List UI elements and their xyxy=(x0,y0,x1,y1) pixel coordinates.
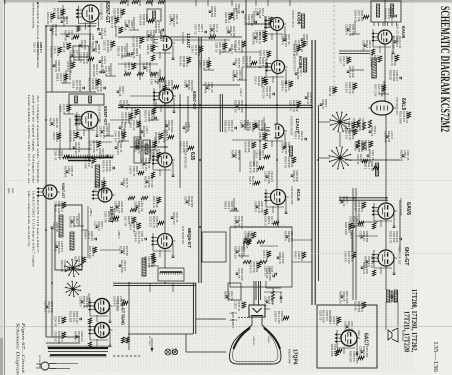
wire column x165 segments xyxy=(164,50,166,89)
wire 12AU7 to 6SN7 xyxy=(164,0,166,36)
tuner switch wafer 2 xyxy=(340,158,351,160)
svg-text:C118 .05: C118 .05 xyxy=(117,46,121,57)
CRT bell outline xyxy=(230,325,282,364)
svg-text:R132 1: R132 1 xyxy=(294,131,298,140)
svg-text:6CL6: 6CL6 xyxy=(295,189,301,201)
dial lamps xyxy=(165,349,171,355)
svg-text:R181 56K: R181 56K xyxy=(224,12,228,24)
svg-text:C185 .02: C185 .02 xyxy=(62,16,66,27)
CRT ion trap dashes xyxy=(238,317,249,319)
svg-text:clockwise rotation.: clockwise rotation. xyxy=(32,2,36,29)
svg-text:C114 6: C114 6 xyxy=(226,26,230,35)
svg-text:R136 50K: R136 50K xyxy=(100,56,104,68)
hookup wires near tube at 90.5,13.5 xyxy=(78,6,80,24)
wire left trunk x52 lower xyxy=(51,228,53,337)
tuner spider wire links xyxy=(339,132,341,147)
extra short wires wave xyxy=(60,33,92,35)
hookup wires near tube at 278,67 xyxy=(265,59,267,77)
svg-text:+285 V: +285 V xyxy=(117,230,121,239)
svg-text:6AC7: 6AC7 xyxy=(363,333,369,346)
svg-text:COAT-ING: COAT-ING xyxy=(252,336,255,346)
wire vertical x186 lower xyxy=(185,334,187,352)
svg-text:L163 6: L163 6 xyxy=(234,301,238,309)
fold crease light horizontal 2 xyxy=(0,180,452,182)
wire horizontal y337 left xyxy=(46,336,80,338)
svg-text:pply.: pply. xyxy=(7,188,11,194)
wire horizontal y343 left xyxy=(46,342,80,344)
svg-text:C160 470: C160 470 xyxy=(344,251,348,263)
svg-text:C141 470: C141 470 xyxy=(113,296,117,308)
svg-text:R138 2: R138 2 xyxy=(119,100,123,109)
bus vertical double x221 upper xyxy=(219,94,221,132)
tube V3 6CB6 1st pix IF xyxy=(271,18,284,31)
svg-text:C181 9MF: C181 9MF xyxy=(139,14,143,26)
IF coil right of 6CB6 no1 xyxy=(301,14,304,28)
svg-text:6SN7-GT: 6SN7-GT xyxy=(104,2,110,23)
svg-text:C132 470: C132 470 xyxy=(134,141,138,153)
svg-text:R104 2.2M: R104 2.2M xyxy=(262,86,266,98)
svg-text:R156 4.7K: R156 4.7K xyxy=(390,54,394,66)
svg-text:R157 3: R157 3 xyxy=(119,246,123,255)
hookup wires near tube at 166,96 xyxy=(153,88,155,106)
svg-text:+385 V: +385 V xyxy=(231,320,235,329)
wire vertical x385 top xyxy=(384,0,386,26)
svg-text:R148 2: R148 2 xyxy=(56,73,60,82)
vert section wires xyxy=(59,105,61,160)
svg-text:+255 V: +255 V xyxy=(154,100,158,109)
page top edge shadow xyxy=(0,0,452,3)
CRT 17QP4 kinescope base box xyxy=(249,305,265,317)
svg-text:C168 .05: C168 .05 xyxy=(124,62,128,73)
tube V12 1B3-GT hv rect xyxy=(98,188,112,202)
hookup wires near tube at 89,120 xyxy=(76,112,78,130)
svg-text:R196 2.2M: R196 2.2M xyxy=(150,72,154,84)
hookup wires near tube at 278,197 xyxy=(265,189,267,207)
tube V1 6SN7-GT vert osc xyxy=(82,5,99,22)
bus vertical x315 xyxy=(314,40,316,305)
svg-text:R135 56K: R135 56K xyxy=(210,6,214,18)
svg-text:R149 30K: R149 30K xyxy=(296,68,300,80)
svg-text:C108 .05: C108 .05 xyxy=(62,42,66,53)
wire column x90 segments xyxy=(89,22,91,92)
bus vertical double x200 xyxy=(198,37,200,283)
wire horizontal y334 xyxy=(128,333,193,335)
svg-text:R196 8: R196 8 xyxy=(224,291,228,300)
wire horizontal y319 xyxy=(196,318,226,320)
svg-text:C131 4: C131 4 xyxy=(359,231,363,240)
top cut component stubs xyxy=(127,0,129,6)
svg-text:R152 2.2M: R152 2.2M xyxy=(46,12,50,24)
svg-text:C147 270: C147 270 xyxy=(114,131,118,143)
svg-text:C181 .05: C181 .05 xyxy=(103,40,107,51)
svg-text:C169 .05: C169 .05 xyxy=(215,42,219,53)
svg-text:R101 80K: R101 80K xyxy=(64,166,68,178)
bottom left page edge dark strip xyxy=(0,338,3,375)
sound det coil xyxy=(372,58,377,78)
svg-text:R190 2.2M: R190 2.2M xyxy=(94,180,98,192)
tube V2 12AU7 half xyxy=(163,36,172,50)
hookup wires near tube at 165,241 xyxy=(152,233,154,251)
width coil dark bar xyxy=(142,258,146,276)
tube V6 6SN7-GT vert out xyxy=(81,112,98,129)
svg-text:R122 4.7K: R122 4.7K xyxy=(96,80,100,92)
svg-text:R155 60K: R155 60K xyxy=(400,150,404,162)
hookup wires near tube at 386,258 xyxy=(373,250,375,268)
svg-text:V111 VERT OSC: V111 VERT OSC xyxy=(100,3,102,21)
terminal comb strip xyxy=(67,157,113,159)
svg-text:C187 270: C187 270 xyxy=(44,301,48,313)
svg-text:R110 4.7K: R110 4.7K xyxy=(152,196,156,208)
svg-text:6SN7-GT: 6SN7-GT xyxy=(61,183,65,199)
svg-text:C159 4MF: C159 4MF xyxy=(370,55,374,67)
svg-text:SPEAKER: SPEAKER xyxy=(401,330,404,342)
svg-text:R179 2.2M: R179 2.2M xyxy=(130,108,134,120)
svg-text:C181 270: C181 270 xyxy=(79,296,83,308)
svg-text:17QP4: 17QP4 xyxy=(292,349,298,365)
wires 6CB6 to trunk xyxy=(246,23,270,25)
svg-text:C129 .07: C129 .07 xyxy=(230,44,234,55)
svg-text:R111 2.2M: R111 2.2M xyxy=(158,84,162,96)
interlock power plug xyxy=(41,362,49,370)
sync wires xyxy=(130,95,158,97)
wire horizontal y52 sound double xyxy=(339,50,370,52)
svg-text:C100 2: C100 2 xyxy=(254,76,258,85)
svg-text:C117 .08: C117 .08 xyxy=(124,216,128,227)
svg-text:R180 4.7K: R180 4.7K xyxy=(74,256,78,268)
B+ bus double horizontal y105 xyxy=(118,104,312,106)
svg-text:R159 100K: R159 100K xyxy=(330,344,334,357)
video box rect xyxy=(230,227,292,287)
svg-text:C168 .04: C168 .04 xyxy=(124,20,128,31)
wire horizontal y2 top cut xyxy=(58,1,110,3)
video box interior resistors xyxy=(243,240,251,243)
svg-text:and with no signal input. Volt: and with no signal input. Voltages sho xyxy=(32,95,36,184)
resistor ladder right of tuner xyxy=(356,120,359,128)
svg-text:+385 V: +385 V xyxy=(89,208,93,217)
wire speaker down xyxy=(385,302,387,330)
fold crease light horizontal xyxy=(0,326,452,328)
svg-text:hold within ±20% with 117 v. a: hold within ±20% with 117 v. a-c su xyxy=(27,95,31,184)
switch wafer lower-left 2 xyxy=(73,289,80,291)
svg-text:Figure 67—Circuit: Figure 67—Circuit xyxy=(21,321,26,374)
svg-text:V109 VIDEO AMP: V109 VIDEO AMP xyxy=(290,186,293,205)
svg-text:C199 7MF: C199 7MF xyxy=(104,211,108,223)
svg-text:R101 56K: R101 56K xyxy=(69,311,73,323)
defl coils wire xyxy=(87,206,89,258)
svg-text:C189 .04: C189 .04 xyxy=(146,44,150,55)
tube V8 6J5 horiz osc xyxy=(158,153,172,167)
svg-text:12AU7: 12AU7 xyxy=(185,33,191,48)
wire vertical x129 lamp feed xyxy=(128,283,130,350)
svg-text:C130 5: C130 5 xyxy=(248,176,252,185)
vert output transformer coil xyxy=(95,165,100,187)
svg-text:L131 8: L131 8 xyxy=(255,8,259,16)
svg-text:C160 270: C160 270 xyxy=(345,128,349,140)
svg-text:R193 4.7K: R193 4.7K xyxy=(354,10,358,22)
svg-text:C130 470: C130 470 xyxy=(141,158,145,170)
speaker xyxy=(388,330,392,340)
heater bus vertical double x194 xyxy=(192,283,194,334)
svg-text:C195 270: C195 270 xyxy=(254,201,258,213)
CRT feed vertical double x256 xyxy=(255,281,257,300)
tube V15 6AV6 1st audio xyxy=(378,203,394,219)
svg-text:6K6-GT: 6K6-GT xyxy=(403,247,409,266)
wire horizontal y40 mid xyxy=(172,39,230,41)
tube V4 6CB6 2nd pix IF xyxy=(272,61,285,74)
svg-text:R111 70K: R111 70K xyxy=(64,30,68,41)
tube V9 12AU7 AGC xyxy=(275,124,284,138)
IF transformer boxes mid-left xyxy=(134,137,141,163)
second dial lamp xyxy=(172,349,177,354)
svg-text:V106 RATIO DET: V106 RATIO DET xyxy=(395,97,398,116)
svg-text:R155 4.7K: R155 4.7K xyxy=(284,156,288,168)
svg-text:C126 470: C126 470 xyxy=(99,126,103,138)
svg-text:R133 56K: R133 56K xyxy=(154,132,158,144)
audio output transformer xyxy=(386,290,389,302)
svg-text:L184 7: L184 7 xyxy=(339,56,343,64)
svg-text:6CB6: 6CB6 xyxy=(297,56,303,69)
svg-text:R151 100K: R151 100K xyxy=(399,111,403,124)
svg-text:C158 1: C158 1 xyxy=(184,80,188,89)
wire horizontal y296 right of CRT xyxy=(264,291,282,293)
pix IF top resistor row xyxy=(120,0,127,3)
svg-text:R176 8K: R176 8K xyxy=(179,56,183,66)
hookup wires near tube at 385,37 xyxy=(372,29,374,47)
hookup wires near tube at 277,24 xyxy=(264,16,266,34)
switch wafer lower-left 1 xyxy=(73,268,81,270)
tube V16 6K6-GT audio out xyxy=(378,250,394,266)
svg-text:6AV6: 6AV6 xyxy=(405,202,411,215)
svg-text:In KCS72M1 V110 was a 6AC7 (sa: In KCS72M1 V110 was a 6AC7 (same xyxy=(32,191,36,268)
svg-text:C119 270: C119 270 xyxy=(345,82,349,93)
svg-text:+140 V: +140 V xyxy=(239,88,243,97)
svg-text:L181 8: L181 8 xyxy=(255,150,259,158)
svg-text:C187 470: C187 470 xyxy=(169,14,173,26)
osc coil box mid-top xyxy=(147,9,161,21)
long wire y37 xyxy=(118,36,242,38)
svg-text:L160 1: L160 1 xyxy=(339,196,343,204)
hookup wires near tube at 386,211 xyxy=(373,203,375,221)
page left edge shadow xyxy=(0,0,3,375)
svg-text:R131 4.7K: R131 4.7K xyxy=(102,160,106,172)
svg-text:R127 100K: R127 100K xyxy=(84,156,88,169)
svg-text:L157 8: L157 8 xyxy=(255,30,259,38)
svg-text:V108 AGC KEYER: V108 AGC KEYER xyxy=(290,116,293,136)
svg-text:6J5: 6J5 xyxy=(189,152,195,161)
svg-text:6SN7-GT: 6SN7-GT xyxy=(103,106,108,126)
svg-text:R169 8: R169 8 xyxy=(224,201,228,210)
tube V17 5Y3-GT rect 1 xyxy=(95,299,110,314)
svg-text:C183 2: C183 2 xyxy=(122,178,126,187)
svg-text:pin connections as 6AC7).: pin connections as 6AC7). xyxy=(27,191,31,247)
wire horizontal y64 mid xyxy=(118,63,158,65)
svg-text:R107 6: R107 6 xyxy=(49,118,53,127)
svg-text:R143 7: R143 7 xyxy=(294,251,298,260)
svg-text:C144 .06: C144 .06 xyxy=(132,48,136,59)
svg-text:C139 1: C139 1 xyxy=(191,45,195,54)
svg-text:R160 4.7K: R160 4.7K xyxy=(110,16,114,28)
svg-text:C190 470: C190 470 xyxy=(281,34,285,46)
svg-text:C168 4: C168 4 xyxy=(240,120,244,129)
resistor on y37 wire xyxy=(209,35,216,38)
svg-text:R182 8K: R182 8K xyxy=(354,301,358,311)
svg-text:C194 .05: C194 .05 xyxy=(145,140,149,151)
svg-text:SCHEMATIC DIAGRAM KCS72M2: SCHEMATIC DIAGRAM KCS72M2 xyxy=(438,6,452,132)
wire column x277 segments xyxy=(276,31,278,60)
resistor row y74 xyxy=(124,72,131,75)
wire y149 left xyxy=(46,148,90,150)
svg-text:L131 3: L131 3 xyxy=(94,221,98,229)
coils inside sound IF box xyxy=(376,4,379,17)
junction dots xyxy=(128,104,130,106)
arrow down 117v xyxy=(151,338,153,348)
CRT neck walls xyxy=(251,317,253,325)
hookup wires near tube at 165,160 xyxy=(152,152,154,170)
bus corner down x312 xyxy=(311,40,313,305)
svg-text:C146 4: C146 4 xyxy=(142,62,146,71)
CRT grid resistor xyxy=(271,291,274,300)
svg-text:117 V A-C: 117 V A-C xyxy=(148,336,151,346)
svg-text:R158 56K: R158 56K xyxy=(98,148,102,160)
svg-text:L190 4: L190 4 xyxy=(129,222,133,230)
svg-text:C124 470: C124 470 xyxy=(51,24,55,36)
svg-text:C103 1: C103 1 xyxy=(52,222,56,231)
horiz osc box xyxy=(55,205,82,270)
wire vertical x188 upper mid xyxy=(187,96,189,132)
faint crease y253 right xyxy=(310,253,452,255)
tube V11 6SN7-GT half lower left xyxy=(43,185,57,199)
svg-text:GLASS: GLASS xyxy=(267,336,270,343)
svg-text:C193 270: C193 270 xyxy=(345,24,349,36)
svg-text:R129 56K: R129 56K xyxy=(146,30,150,42)
svg-text:C117 3: C117 3 xyxy=(184,196,188,205)
svg-text:R194 8: R194 8 xyxy=(231,150,235,159)
svg-text:R112 4: R112 4 xyxy=(245,122,249,131)
wire vertical x246 top xyxy=(245,0,247,128)
svg-text:R186 5: R186 5 xyxy=(84,231,88,240)
focus box upper CRT xyxy=(228,283,241,300)
svg-text:All voltages measured with “Vo: All voltages measured with “VoltOhm xyxy=(36,95,41,184)
svg-text:V102 1ST AUDIO: V102 1ST AUDIO xyxy=(399,198,402,216)
svg-text:R191 4.7K: R191 4.7K xyxy=(144,110,148,122)
svg-text:C129 .05: C129 .05 xyxy=(265,268,269,279)
wire vertical x400 audio right xyxy=(399,200,401,252)
svg-text:R118 2.2M: R118 2.2M xyxy=(60,260,64,272)
svg-text:C152 .05: C152 .05 xyxy=(319,310,323,321)
svg-text:R196 4.7K: R196 4.7K xyxy=(144,256,148,268)
svg-text:R156 4.7K: R156 4.7K xyxy=(242,56,246,68)
svg-text:ecti: ecti xyxy=(3,0,7,4)
wire horizontal y352 xyxy=(186,351,226,353)
tube V14 6CL6 video amp xyxy=(271,190,286,205)
wire 6BQ6 to flyback xyxy=(164,249,166,268)
wire horizontal y160 right xyxy=(345,159,400,161)
video box to bus wires xyxy=(292,239,312,241)
svg-text:R108 60K: R108 60K xyxy=(232,70,236,82)
svg-text:C123 2MF: C123 2MF xyxy=(69,130,73,142)
flyback comb xyxy=(160,271,182,273)
svg-text:135—136: 135—136 xyxy=(432,341,439,373)
power transformer comb lower xyxy=(50,354,106,356)
svg-text:C197 4: C197 4 xyxy=(80,40,84,49)
vert output transformer box xyxy=(69,94,104,105)
svg-text:R177 40K: R177 40K xyxy=(204,82,208,94)
svg-text:ead: ead xyxy=(11,188,15,193)
svg-text:R189 100K: R189 100K xyxy=(224,120,228,133)
svg-text:R185 4.7K: R185 4.7K xyxy=(179,141,183,153)
tube V7 6SN7-GT sync xyxy=(159,89,173,103)
hookup wires near tube at 165,43 xyxy=(152,35,154,53)
wire vertical x180 mid xyxy=(179,94,181,188)
svg-text:R137 2.2M: R137 2.2M xyxy=(88,246,92,258)
svg-text:6CB6: 6CB6 xyxy=(296,12,302,25)
heater drop wires xyxy=(149,283,151,292)
svg-text:6BQ6-GT: 6BQ6-GT xyxy=(187,228,192,248)
svg-text:C116 9: C116 9 xyxy=(52,132,56,141)
hookup wires near tube at 102,330 xyxy=(89,322,91,340)
svg-text:C110 .04: C110 .04 xyxy=(356,154,360,165)
svg-text:R106 56K: R106 56K xyxy=(384,8,388,20)
svg-text:R160 56K: R160 56K xyxy=(349,351,353,363)
svg-text:C168 .08: C168 .08 xyxy=(362,40,366,51)
svg-text:C134 .07: C134 .07 xyxy=(264,216,268,227)
svg-text:R106 40K: R106 40K xyxy=(184,122,188,134)
svg-text:V110: V110 xyxy=(357,330,360,336)
bus vertical x318 partial xyxy=(317,105,319,281)
svg-text:C187 .02: C187 .02 xyxy=(194,24,198,35)
CRT electron gun chevron xyxy=(253,308,262,313)
svg-text:Schematic Diagram: Schematic Diagram xyxy=(16,323,21,375)
svg-text:R114 100K: R114 100K xyxy=(92,64,96,77)
IF coil right of 6CB6 no2 xyxy=(303,58,306,72)
svg-text:R127 56K: R127 56K xyxy=(132,36,136,48)
svg-text:C133 .06: C133 .06 xyxy=(264,296,268,307)
svg-text:R143 2.2M: R143 2.2M xyxy=(88,34,92,46)
crease dashed vertical x334 xyxy=(333,0,335,100)
svg-text:R119 80K: R119 80K xyxy=(114,26,118,37)
CRT thick funnel crescents xyxy=(234,328,251,349)
svg-text:V115 HORIZ OUT: V115 HORIZ OUT xyxy=(181,226,183,245)
svg-text:V105 2ND PIX IF: V105 2ND PIX IF xyxy=(293,54,295,72)
svg-text:R139 4.7K: R139 4.7K xyxy=(389,231,393,243)
wire horizontal y92 left xyxy=(46,91,96,93)
svg-text:V103 AUDIO OUT: V103 AUDIO OUT xyxy=(398,246,401,265)
svg-text:C104 .05: C104 .05 xyxy=(264,171,268,182)
tuner switch wafer 1 xyxy=(340,122,350,124)
svg-text:R129 90K: R129 90K xyxy=(50,46,54,58)
svg-text:C133 270: C133 270 xyxy=(66,61,70,73)
heater bus double y283 xyxy=(113,282,196,284)
svg-text:R195 4.7K: R195 4.7K xyxy=(264,16,268,28)
svg-text:C138 270: C138 270 xyxy=(289,100,293,112)
tube V13 6BQ6-GT horiz out xyxy=(158,234,173,249)
horiz osc resistor rows xyxy=(128,196,135,199)
svg-text:C128 470: C128 470 xyxy=(344,321,348,333)
svg-text:R153 4.7K: R153 4.7K xyxy=(292,44,296,56)
resistor pair near dial lamp feed xyxy=(121,337,124,343)
hookup wires near tube at 277,131 xyxy=(264,123,266,141)
svg-text:R186 100K: R186 100K xyxy=(344,222,348,235)
svg-text:V110 SYNC: V110 SYNC xyxy=(181,32,183,45)
wire horizontal y227 xyxy=(230,226,292,228)
svg-text:C130 270: C130 270 xyxy=(149,216,153,228)
svg-text:C105 470: C105 470 xyxy=(281,142,285,154)
svg-text:C105 8: C105 8 xyxy=(72,80,76,89)
hookup wires near tube at 102,306 xyxy=(89,298,91,316)
dark resistor bar xyxy=(375,163,378,176)
wire plug to transformer xyxy=(56,363,78,365)
hookup wires near tube at 349,338 xyxy=(336,330,338,348)
